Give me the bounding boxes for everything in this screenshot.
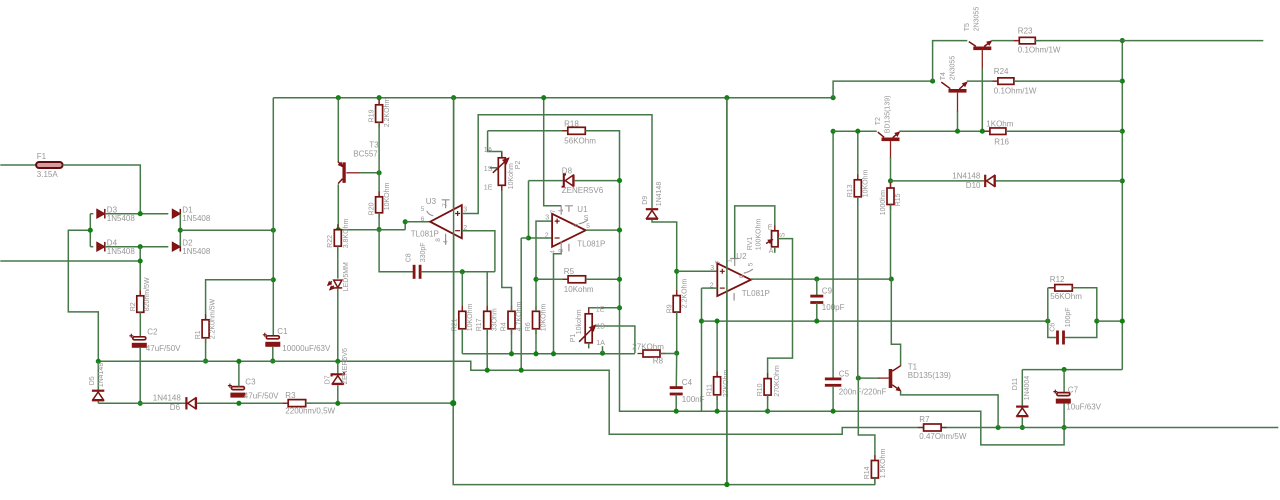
wire C7 bottom <box>1063 404 1065 428</box>
aux negative row y403 <box>98 402 185 404</box>
svg-text:1: 1 <box>558 208 565 212</box>
node R9 R8 C4 <box>674 351 679 356</box>
svg-text:0.1Ohm/1W: 0.1Ohm/1W <box>1018 45 1061 54</box>
wire R10 bottom <box>767 395 769 411</box>
svg-text:TL081P: TL081P <box>577 239 605 248</box>
wire bottom rail <box>453 403 875 485</box>
svg-text:1N4148: 1N4148 <box>153 393 182 402</box>
label U1 plus <box>555 219 560 224</box>
node C7 top <box>1062 367 1067 372</box>
svg-text:330pF: 330pF <box>420 242 427 262</box>
svg-text:BD135(139): BD135(139) <box>884 96 891 134</box>
svg-text:R13: R13 <box>847 184 854 197</box>
node T4 base <box>955 129 960 134</box>
svg-text:R8: R8 <box>653 356 664 365</box>
U2 pin5 stub <box>744 269 753 273</box>
node R5 rail <box>617 277 622 282</box>
svg-text:200nF/220nF: 200nF/220nF <box>839 387 887 396</box>
svg-text:R1: R1 <box>195 330 202 339</box>
svg-text:2.2K0hm/5W: 2.2K0hm/5W <box>209 298 216 339</box>
wire T4 base down <box>957 93 959 113</box>
svg-text:R21: R21 <box>452 318 459 331</box>
svg-text:8: 8 <box>558 248 565 252</box>
U2 pin1 7 stubs <box>730 259 739 267</box>
svg-text:1N5408: 1N5408 <box>107 247 136 256</box>
resistor R23 0.1Ohm/1W <box>1014 40 1041 42</box>
svg-text:R18: R18 <box>564 119 579 128</box>
node C9 top <box>814 277 819 282</box>
node U1 output rail <box>617 228 622 233</box>
svg-text:ZENER5V6: ZENER5V6 <box>562 186 604 195</box>
zener diode D8 ZENER5V6 <box>529 180 563 182</box>
node R10 bottom <box>765 409 770 414</box>
svg-text:0.47Ohm/5W: 0.47Ohm/5W <box>919 432 967 441</box>
svg-text:1N5408: 1N5408 <box>182 247 211 256</box>
svg-text:C9: C9 <box>822 286 833 295</box>
svg-text:2N3055: 2N3055 <box>973 7 980 32</box>
svg-text:U2: U2 <box>736 252 747 261</box>
svg-text:R7: R7 <box>919 415 930 424</box>
wire U1 pin4 down <box>554 250 562 354</box>
diode D5 1N4148 <box>97 361 99 389</box>
main positive rail top <box>273 97 833 99</box>
svg-text:R15: R15 <box>895 193 902 206</box>
node R11 top <box>715 319 720 324</box>
node C4 bottom <box>674 409 679 414</box>
op-amp U2 TL081P <box>717 263 751 296</box>
svg-text:2.2KOhm: 2.2KOhm <box>384 98 391 128</box>
wire U2 output <box>751 278 891 280</box>
svg-text:4: 4 <box>549 250 556 254</box>
svg-text:R10: R10 <box>757 383 764 396</box>
svg-text:100KOhm: 100KOhm <box>755 219 762 251</box>
resistor R17 33Ohm <box>486 272 488 280</box>
wire U3 minus node <box>338 229 405 231</box>
svg-text:10uF/63V: 10uF/63V <box>1066 402 1101 411</box>
resistor R4 4.7KOhm <box>511 306 513 335</box>
wire T5 emitter to R23 <box>991 40 1019 42</box>
wire T5 collector riser <box>933 41 968 82</box>
potentiometer RV1 100KOhm <box>774 225 776 252</box>
wire R19 bottom <box>378 122 380 173</box>
svg-text:C4: C4 <box>682 378 693 387</box>
node T1 base <box>856 376 861 381</box>
svg-text:D10: D10 <box>966 181 981 190</box>
svg-text:10KOhm: 10KOhm <box>467 304 474 332</box>
node R19 top <box>377 95 382 100</box>
node U2 pin3 <box>674 269 679 274</box>
svg-text:D5: D5 <box>89 376 96 385</box>
svg-text:3: 3 <box>710 265 714 272</box>
U1 pin7 stub <box>561 206 573 215</box>
capacitor C1 10000uF/63V <box>266 336 279 339</box>
svg-text:LED5MM: LED5MM <box>343 262 350 291</box>
svg-text:U3: U3 <box>426 197 437 206</box>
svg-text:C5: C5 <box>839 369 850 378</box>
U3 pin5 stub <box>427 211 434 216</box>
wire R13 column <box>857 131 859 180</box>
wire RV1 wiper to R10 <box>768 239 793 379</box>
capacitor C5 200nF <box>832 131 834 378</box>
svg-text:BC557: BC557 <box>353 149 378 158</box>
svg-text:T4: T4 <box>940 72 947 80</box>
svg-text:1N4148: 1N4148 <box>98 363 105 388</box>
svg-text:3: 3 <box>545 214 549 221</box>
wire T1 base network to R14 <box>858 378 875 460</box>
svg-text:33Ohm: 33Ohm <box>491 308 498 331</box>
node T3 emitter rail <box>336 95 341 100</box>
wire C1 bottom <box>272 347 274 361</box>
wire R6 top to U1 pin3 <box>536 221 552 311</box>
resistor R6 10KOhm <box>535 306 537 335</box>
resistor R2 820hm/5W <box>139 290 141 318</box>
svg-text:R12: R12 <box>1050 275 1065 284</box>
svg-text:R9: R9 <box>666 304 673 313</box>
node bridge top mid <box>138 211 143 216</box>
wire C8 right <box>421 271 495 273</box>
wire U1 pin7 supply <box>544 98 562 206</box>
wire T2 emitter to bases <box>899 130 990 132</box>
svg-text:8: 8 <box>435 238 442 242</box>
svg-text:R23: R23 <box>1018 26 1033 35</box>
wire T4 emitter to R24 <box>967 80 998 82</box>
node out top <box>1120 38 1125 43</box>
diode D6 1N4148 <box>185 397 187 409</box>
wire U2 rail overlay <box>726 98 728 485</box>
wire D10 right <box>996 180 1122 182</box>
svg-text:1KOhm: 1KOhm <box>986 119 1013 128</box>
wire D6 to R3 <box>197 402 288 404</box>
wire R22 to LED <box>337 246 339 278</box>
wire R9 bottom <box>676 312 678 353</box>
wire T2 collector <box>833 130 877 132</box>
node C1 bottom <box>270 359 275 364</box>
P1 bottom stub <box>588 343 590 349</box>
svg-text:1N4004: 1N4004 <box>1024 376 1031 401</box>
node R5 left <box>533 277 538 282</box>
resistor R11 27KOhm <box>716 321 718 377</box>
wire R6 bottom <box>535 329 537 354</box>
svg-text:P2: P2 <box>515 161 522 170</box>
resistor R18 56KOhm <box>488 130 568 132</box>
wire R8 right <box>660 353 677 355</box>
svg-text:5: 5 <box>747 262 754 266</box>
node output sense join <box>1045 319 1050 324</box>
bottom bank rail <box>462 353 635 355</box>
resistor R5 10Kohm <box>536 278 568 280</box>
resistor R7 0.47Ohm/5W <box>918 427 947 429</box>
node U1 rail top <box>541 95 546 100</box>
wire bridge right vertical <box>179 214 181 247</box>
transistor T1 BD135 <box>889 369 893 388</box>
diode D2 <box>172 242 180 251</box>
output minus rail <box>941 427 1278 429</box>
svg-text:R16: R16 <box>994 137 1009 146</box>
svg-text:R14: R14 <box>864 466 871 479</box>
svg-text:10000uF/63V: 10000uF/63V <box>282 344 331 353</box>
wire R15 bottom <box>890 205 892 280</box>
U1 pin 4 8 stubs <box>561 241 569 254</box>
svg-text:TL081P: TL081P <box>742 289 770 298</box>
wire C4 bottom <box>675 394 677 411</box>
svg-text:6: 6 <box>421 216 425 223</box>
node R20 bottom <box>377 227 382 232</box>
svg-text:1A: 1A <box>484 147 493 154</box>
svg-text:3.15A: 3.15A <box>37 170 59 179</box>
T1 emitter <box>892 385 900 391</box>
node bridge bottom mid <box>138 244 143 249</box>
node T3 base <box>377 170 382 175</box>
svg-text:1N5408: 1N5408 <box>182 214 211 223</box>
wire R16 right <box>1006 130 1122 132</box>
potentiometer P2 10Kohm <box>501 152 503 191</box>
svg-text:T3: T3 <box>369 140 379 149</box>
wire AC input top to fuse <box>0 164 36 166</box>
wire U3 rail overlay <box>453 98 455 403</box>
svg-text:1E: 1E <box>484 184 493 191</box>
svg-text:C6: C6 <box>1049 323 1056 332</box>
wire D8 right <box>575 180 620 182</box>
svg-text:S: S <box>584 215 589 222</box>
svg-text:D6: D6 <box>170 403 181 412</box>
node R1 tap <box>271 277 276 282</box>
wire AC return path left box <box>68 230 98 361</box>
node LED bottom <box>335 359 340 364</box>
node U3 supply rail top <box>451 95 456 100</box>
svg-text:2: 2 <box>545 232 549 239</box>
node current sense <box>519 368 524 373</box>
wire R4 bottom <box>511 329 513 354</box>
wire bridge output to C1 rail <box>180 229 273 231</box>
wire C1 rail vertical <box>272 98 274 337</box>
label U2 plus <box>720 269 725 274</box>
svg-text:7: 7 <box>442 203 449 207</box>
node pin4 rail <box>551 351 556 356</box>
node rail at bridge output <box>271 228 276 233</box>
svg-text:47uF/50V: 47uF/50V <box>244 391 279 400</box>
svg-text:R11: R11 <box>707 384 714 396</box>
resistor R19 2.2KOhm <box>378 98 380 105</box>
node C9 feedback <box>814 319 819 324</box>
wire LED to node <box>337 288 339 361</box>
resistor R21 10KOhm <box>461 272 463 312</box>
wire R5 right <box>586 278 620 280</box>
svg-text:1E: 1E <box>596 306 605 313</box>
wire P1 wiper <box>595 326 635 353</box>
svg-text:56KOhm: 56KOhm <box>1050 292 1082 301</box>
wire R12 to output rail <box>1097 320 1123 322</box>
wire sense return to output <box>768 411 1065 445</box>
wire R23 right <box>1035 40 1122 42</box>
svg-text:D11: D11 <box>1012 378 1019 390</box>
wire C3 top <box>238 361 240 386</box>
RV1 bottom stub <box>774 247 776 253</box>
wire T1 collector <box>891 279 900 366</box>
transistor T5 2N3055 <box>973 47 991 51</box>
label U3 plus <box>455 211 460 216</box>
diode D4 <box>90 246 93 248</box>
node D5 top <box>96 359 101 364</box>
resistor R24 0.1Ohm/1W <box>992 80 1019 82</box>
node R6 bottom <box>533 351 538 356</box>
svg-text:C1: C1 <box>277 327 288 336</box>
resistor R8 27KOhm <box>638 353 666 355</box>
wire R24 right <box>1014 80 1122 82</box>
P2 wiper stub <box>490 167 498 169</box>
wire U3 output jog <box>404 222 406 230</box>
svg-text:1N4148: 1N4148 <box>952 171 981 180</box>
svg-text:820hm/5W: 820hm/5W <box>144 277 151 311</box>
resistor R9 2.2KOhm <box>676 290 678 318</box>
node T1 collector from U2 out <box>889 277 894 282</box>
resistor R20 10KOhm <box>378 173 380 197</box>
svg-text:C2: C2 <box>147 327 158 336</box>
op-amp U3 TL081P <box>430 205 462 238</box>
U1 pin5 stub <box>579 220 588 224</box>
wire AC input lower <box>0 260 140 262</box>
resistor R14 1.5KOhm <box>874 455 876 484</box>
node D8 rail <box>617 178 622 183</box>
wire R11 bottom <box>716 395 718 411</box>
svg-text:R24: R24 <box>994 67 1009 76</box>
svg-text:BD135(139): BD135(139) <box>908 371 951 380</box>
svg-text:3: 3 <box>463 206 467 213</box>
capacitor C9 100pF <box>816 279 818 296</box>
wire U3 out down to C8 <box>379 230 414 272</box>
svg-text:7: 7 <box>715 260 722 264</box>
wire R14 bottom <box>874 478 876 485</box>
U3 pin7 stub <box>442 200 454 209</box>
wire fuse to bridge <box>63 165 141 214</box>
svg-text:5: 5 <box>586 223 590 230</box>
node D7 bottom <box>335 401 340 406</box>
diode D10 1N4148 <box>891 180 985 182</box>
wire T1 base <box>858 377 879 379</box>
wire bridge left vertical <box>89 214 91 247</box>
capacitor C2 47uF/50V <box>133 337 146 340</box>
node R22 top <box>336 227 341 232</box>
svg-text:6: 6 <box>573 223 580 227</box>
node C5 bottom <box>831 409 836 414</box>
wire U3 output to tip <box>405 221 430 223</box>
resistor R3 220Ohm/0.5W <box>283 402 312 404</box>
svg-text:1B: 1B <box>596 323 605 330</box>
wire U3 pin2 <box>462 231 495 272</box>
wire out top right <box>1122 40 1263 42</box>
svg-text:10KOhm: 10KOhm <box>540 304 547 332</box>
node U2 rail bottom <box>724 482 729 487</box>
resistor R10 270KOhm <box>767 373 769 401</box>
node R7 output <box>996 425 1001 430</box>
label U3 minus <box>455 230 460 232</box>
wire U3 rail vertical <box>453 98 455 403</box>
node out R24 <box>1120 79 1125 84</box>
wire U2 pin3 <box>677 270 718 272</box>
svg-text:7: 7 <box>550 209 557 213</box>
capacitor C7 10uF/63V <box>1063 370 1065 393</box>
svg-text:R6: R6 <box>525 322 532 331</box>
resistor R15 100Ohm <box>890 181 892 188</box>
node U2 feedback <box>699 319 704 324</box>
wire U2 pin2 down <box>701 288 703 411</box>
node main rail right end <box>831 95 836 100</box>
wire center tap column R2 C2 <box>139 247 141 296</box>
node C5 top rail <box>831 129 836 134</box>
resistor R13 10KOhm <box>857 174 859 202</box>
transistor T3 BC557 emitter wire <box>337 98 339 162</box>
svg-text:T2: T2 <box>875 117 882 125</box>
wire to R1 <box>206 280 274 320</box>
wire out bottom elbow <box>1022 369 1122 371</box>
svg-text:10Kohm: 10Kohm <box>508 163 515 189</box>
svg-text:1000hm: 1000hm <box>880 190 887 215</box>
node T4 collector <box>930 79 935 84</box>
U2 pin 4 8 stubs <box>733 293 735 301</box>
svg-text:2200hm/0,5W: 2200hm/0,5W <box>285 406 335 415</box>
capacitor C4 100nF <box>675 353 677 387</box>
wire T2 base down <box>890 141 892 158</box>
wire C5 bottom <box>832 386 834 411</box>
svg-text:RV1: RV1 <box>747 237 754 251</box>
wire R18 right to rail <box>585 131 767 411</box>
resistor R22 3.8KOhm <box>337 224 339 252</box>
svg-text:R2: R2 <box>130 302 137 311</box>
svg-text:2N3055: 2N3055 <box>949 56 956 81</box>
node C3 bottom <box>236 401 241 406</box>
svg-text:0.1Ohm/1W: 0.1Ohm/1W <box>994 86 1037 95</box>
wire C2 to D6 row <box>139 348 141 404</box>
node R11 bottom <box>715 409 720 414</box>
wire U1 output <box>586 229 620 231</box>
svg-text:4: 4 <box>442 240 449 244</box>
svg-text:10KOhm: 10KOhm <box>862 170 869 198</box>
capacitor C6 100pF <box>1056 331 1059 345</box>
diode D9 1N4148 <box>646 208 658 210</box>
svg-text:A: A <box>769 248 774 255</box>
svg-text:S: S <box>779 232 786 237</box>
diode D1 <box>172 209 180 218</box>
diode D3 <box>90 213 93 215</box>
svg-text:ZENER5V6: ZENER5V6 <box>342 348 349 384</box>
wire D9 bottom jog <box>652 220 677 296</box>
label U1 minus <box>555 237 560 239</box>
svg-text:R22: R22 <box>327 235 334 248</box>
node out sense <box>1120 319 1125 324</box>
node U2 rail top <box>724 95 729 100</box>
svg-text:1N5408: 1N5408 <box>107 214 136 223</box>
svg-text:TL081P: TL081P <box>411 229 439 238</box>
svg-text:270KOhm: 270KOhm <box>774 365 781 397</box>
svg-text:1S: 1S <box>484 166 493 173</box>
node R4 bottom <box>509 351 514 356</box>
feedback wire y321 <box>702 320 1048 322</box>
svg-text:47uF/50V: 47uF/50V <box>146 344 181 353</box>
svg-text:100pF: 100pF <box>1065 307 1072 327</box>
wire P1 top <box>589 308 620 314</box>
svg-text:6: 6 <box>738 274 745 278</box>
wire C9 bottom <box>816 303 818 321</box>
node C2 bottom <box>138 401 143 406</box>
wire U3 pin3 to reference line <box>462 115 652 214</box>
svg-text:C7: C7 <box>1068 385 1079 394</box>
wire R3 right <box>306 402 454 404</box>
wire R18 left to P2 <box>488 131 502 158</box>
svg-text:5: 5 <box>421 206 425 213</box>
node P1 return stub <box>600 351 605 356</box>
svg-text:2.2KOhm: 2.2KOhm <box>681 279 688 309</box>
wire R2 to C2 <box>139 312 141 337</box>
node rail joint overlay <box>450 400 456 406</box>
